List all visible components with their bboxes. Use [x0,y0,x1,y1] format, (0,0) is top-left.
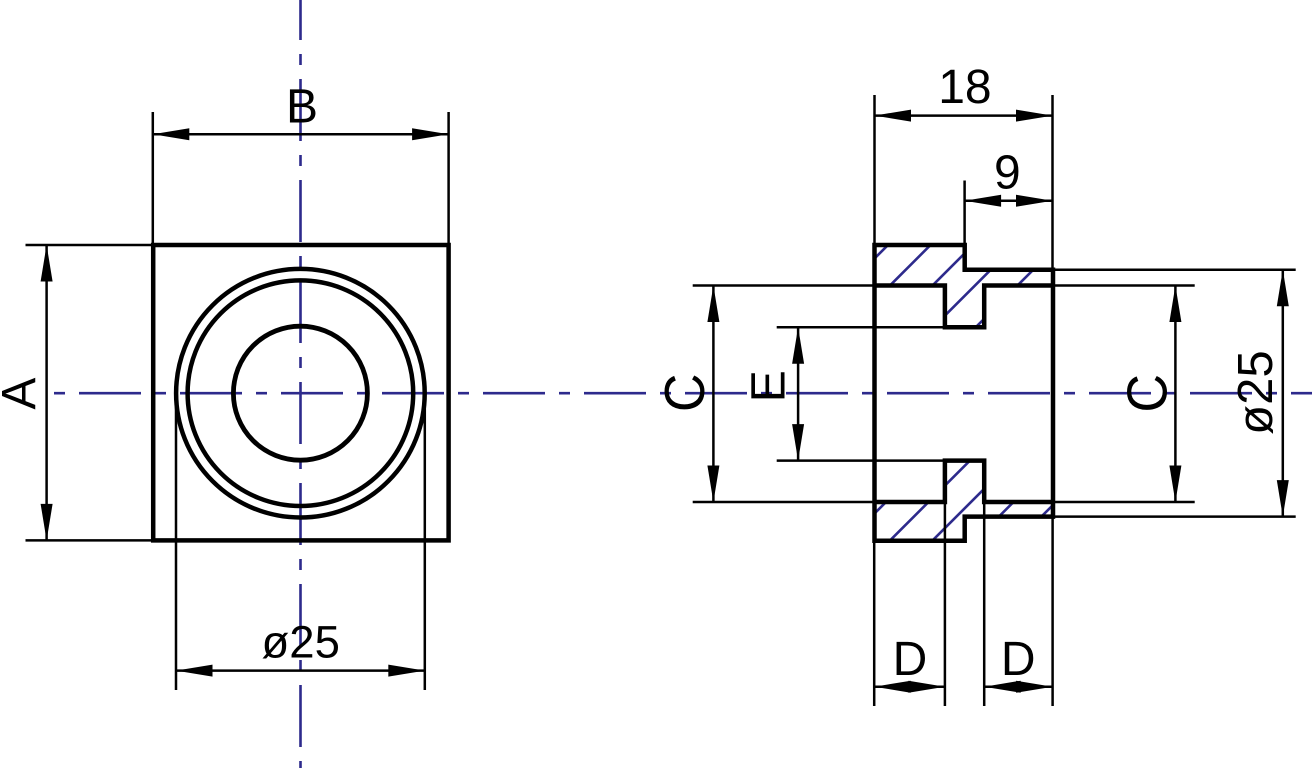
front view outer circle (o25 cylinder) [176,269,425,518]
svg-text:E: E [743,370,796,402]
section view outer profile [875,245,1054,541]
svg-text:ø25: ø25 [1229,350,1283,434]
svg-text:ø25: ø25 [261,617,339,668]
dim o25 side line [1282,270,1285,517]
dim 18/9 extension line right [1051,95,1054,270]
dim C left extension line top [693,284,875,287]
dim E extension line bottom [777,459,945,462]
svg-text:C: C [652,373,716,412]
dim D extension line 4 [1051,517,1054,706]
dim B arrows [153,128,449,140]
svg-text:B: B [286,80,318,133]
dim C left line [712,286,715,503]
dim B line [153,133,449,136]
svg-text:C: C [1115,374,1179,413]
dim C right arrows [1169,286,1181,503]
hatching (section cut, blue 45 deg) [573,225,1312,560]
section bore lower edge with groove [875,461,1054,502]
dim D extension line 2 [944,502,947,706]
dim A extension line top [26,244,153,247]
dim 18 arrows [875,110,1053,122]
dim o25 side arrows [1277,270,1289,517]
dim 9 arrows [965,195,1053,207]
dim D right arrows [984,681,1052,693]
centerline horizontal (common axis) [54,392,1312,395]
dim A arrows [41,245,53,540]
dim o25 front line [176,669,425,672]
dim D left arrows [874,681,945,693]
svg-text:9: 9 [994,147,1021,200]
dim C left extension line bottom [693,501,875,504]
dim o25 front extension line left [175,393,178,690]
dim E line [797,327,800,460]
dim o25 side extension line bottom [1053,515,1296,518]
dim C right line [1174,286,1177,503]
svg-text:D: D [893,633,928,686]
dim B extension line right [447,112,450,245]
svg-text:D: D [1001,633,1036,686]
dim E arrows [792,327,804,460]
section bore upper edge with groove [875,286,1054,328]
dim D left line [874,685,945,688]
front view square body outline [153,245,448,540]
svg-text:A: A [0,378,46,410]
dim E extension line top [777,326,945,329]
dim A line [45,245,48,540]
dim 9 extension line left [963,181,966,246]
dim D extension line 1 [873,541,876,706]
dim C right extension line top [1053,284,1195,287]
svg-text:18: 18 [938,61,991,114]
front view bore circle [233,326,367,460]
dim D extension line 3 [983,502,986,706]
dim B extension line left [152,112,155,245]
dim 18 extension line left [873,95,876,245]
dim A extension line bottom [26,539,153,542]
dim C right extension line bottom [1053,501,1195,504]
front view chamfer circle [188,280,414,506]
dim D right line [984,685,1052,688]
centerline vertical (front view axis) [299,0,302,768]
dim 18 line [875,114,1053,117]
dim o25 front extension line right [424,393,427,690]
dim 9 line [965,199,1053,202]
dim o25 front arrows [176,665,425,677]
dim o25 side extension line top [1053,269,1296,272]
dim C left arrows [707,286,719,503]
